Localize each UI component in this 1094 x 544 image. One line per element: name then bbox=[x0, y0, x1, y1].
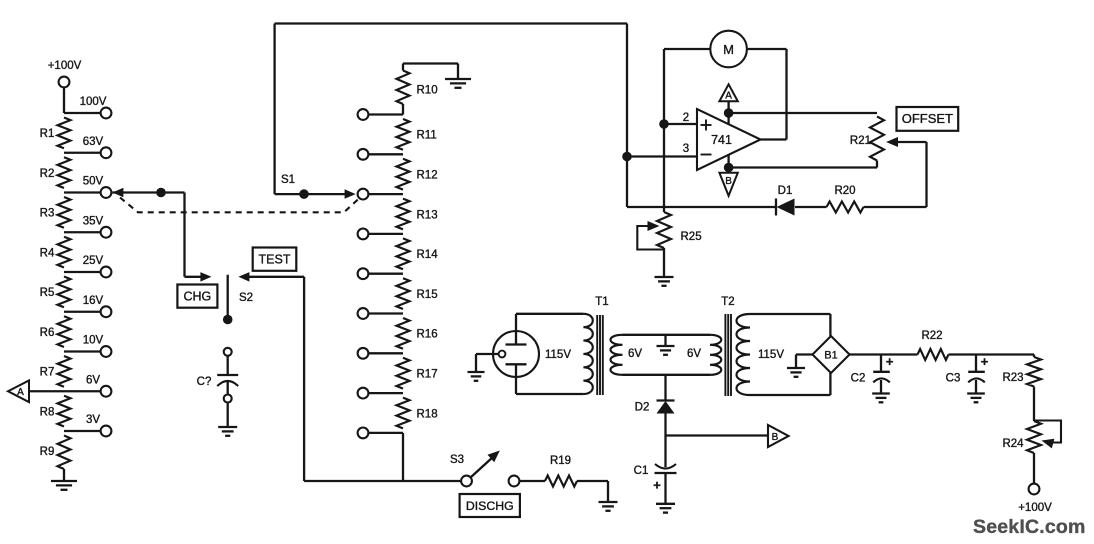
svg-text:B1: B1 bbox=[824, 349, 837, 361]
svg-text:C3: C3 bbox=[946, 373, 961, 385]
svg-text:R23: R23 bbox=[1002, 372, 1023, 384]
svg-text:CHG: CHG bbox=[184, 289, 212, 303]
svg-text:10V: 10V bbox=[83, 335, 104, 347]
svg-text:M: M bbox=[723, 42, 734, 57]
svg-text:A: A bbox=[17, 387, 24, 398]
svg-text:S3: S3 bbox=[450, 454, 464, 466]
svg-text:50V: 50V bbox=[83, 176, 104, 188]
svg-text:R17: R17 bbox=[417, 369, 438, 381]
svg-text:A: A bbox=[725, 91, 732, 102]
svg-text:R1: R1 bbox=[40, 128, 55, 140]
svg-text:C2: C2 bbox=[851, 373, 866, 385]
svg-text:R22: R22 bbox=[921, 330, 942, 342]
svg-text:25V: 25V bbox=[83, 255, 104, 267]
svg-text:R21: R21 bbox=[850, 135, 871, 147]
svg-text:R24: R24 bbox=[1002, 438, 1024, 450]
svg-text:+: + bbox=[981, 354, 989, 369]
svg-text:S1: S1 bbox=[281, 174, 295, 186]
svg-text:C?: C? bbox=[197, 376, 212, 388]
svg-text:B: B bbox=[772, 432, 779, 443]
svg-text:16V: 16V bbox=[83, 295, 104, 307]
svg-text:6V: 6V bbox=[628, 348, 642, 360]
svg-text:R20: R20 bbox=[834, 185, 855, 197]
svg-text:R13: R13 bbox=[417, 209, 438, 221]
svg-text:35V: 35V bbox=[83, 215, 104, 227]
svg-text:D1: D1 bbox=[778, 185, 793, 197]
svg-text:R14: R14 bbox=[417, 249, 439, 261]
svg-text:SeekIC.com: SeekIC.com bbox=[973, 516, 1086, 538]
svg-text:R6: R6 bbox=[40, 327, 55, 339]
svg-text:+100V: +100V bbox=[1018, 502, 1052, 514]
svg-text:115V: 115V bbox=[758, 349, 784, 361]
svg-text:R19: R19 bbox=[550, 455, 571, 467]
svg-text:TEST: TEST bbox=[259, 252, 291, 266]
svg-text:DISCHG: DISCHG bbox=[466, 499, 514, 513]
svg-text:100V: 100V bbox=[80, 96, 107, 108]
svg-text:6V: 6V bbox=[687, 348, 701, 360]
svg-text:115V: 115V bbox=[545, 349, 571, 361]
svg-text:R3: R3 bbox=[40, 208, 55, 220]
svg-text:R7: R7 bbox=[40, 367, 55, 379]
svg-text:3: 3 bbox=[683, 143, 689, 155]
svg-text:R18: R18 bbox=[417, 408, 438, 420]
svg-text:R9: R9 bbox=[40, 446, 55, 458]
svg-text:R5: R5 bbox=[40, 287, 55, 299]
svg-text:741: 741 bbox=[711, 133, 732, 147]
svg-text:C1: C1 bbox=[634, 465, 649, 477]
svg-text:+100V: +100V bbox=[48, 60, 82, 72]
svg-text:+: + bbox=[653, 478, 661, 493]
svg-text:T2: T2 bbox=[721, 296, 734, 308]
svg-text:63V: 63V bbox=[83, 136, 104, 148]
svg-text:2: 2 bbox=[683, 112, 689, 124]
svg-text:R15: R15 bbox=[417, 289, 438, 301]
svg-text:S2: S2 bbox=[239, 292, 253, 304]
svg-text:R10: R10 bbox=[417, 84, 438, 96]
svg-text:D2: D2 bbox=[635, 402, 650, 414]
svg-text:+: + bbox=[886, 354, 894, 369]
svg-text:3V: 3V bbox=[86, 414, 100, 426]
svg-text:B: B bbox=[725, 176, 732, 187]
svg-text:R12: R12 bbox=[417, 170, 438, 182]
svg-text:R2: R2 bbox=[40, 168, 55, 180]
svg-text:R11: R11 bbox=[417, 130, 437, 142]
svg-text:R4: R4 bbox=[40, 247, 55, 259]
svg-text:R16: R16 bbox=[417, 329, 438, 341]
svg-text:R8: R8 bbox=[40, 406, 55, 418]
svg-text:6V: 6V bbox=[86, 374, 100, 386]
svg-text:OFFSET: OFFSET bbox=[902, 111, 953, 126]
svg-text:T1: T1 bbox=[595, 296, 608, 308]
svg-text:R25: R25 bbox=[681, 231, 702, 243]
